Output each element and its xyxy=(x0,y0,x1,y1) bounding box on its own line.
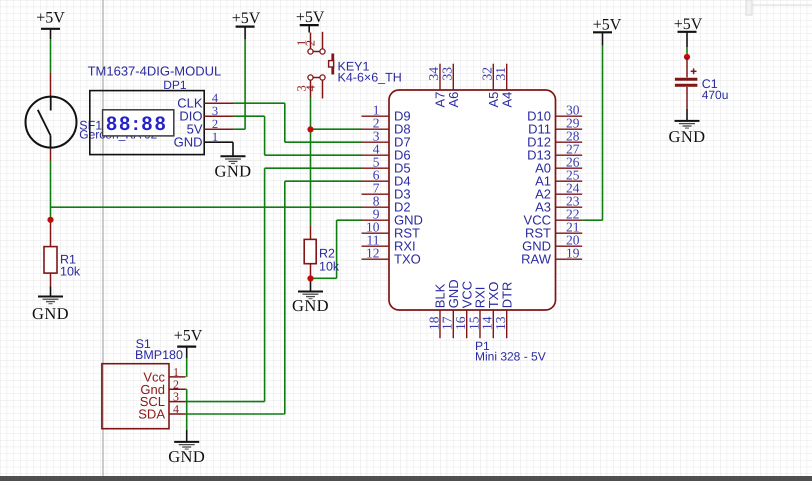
svg-text:10k: 10k xyxy=(60,265,81,279)
svg-text:4: 4 xyxy=(212,91,219,105)
svg-text:88:88: 88:88 xyxy=(106,113,168,135)
svg-text:Mini 328 - 5V: Mini 328 - 5V xyxy=(475,349,546,363)
svg-text:+5V: +5V xyxy=(674,16,703,33)
svg-text:GND: GND xyxy=(32,304,69,323)
svg-text:12: 12 xyxy=(366,245,380,260)
svg-text:+5V: +5V xyxy=(174,328,203,345)
svg-text:GND: GND xyxy=(215,161,252,180)
svg-text:A4: A4 xyxy=(499,92,514,108)
svg-text:RAW: RAW xyxy=(521,252,552,267)
svg-text:SDA: SDA xyxy=(138,407,165,422)
svg-text:A6: A6 xyxy=(446,92,461,108)
svg-text:TM1637-4DIG-MODUL: TM1637-4DIG-MODUL xyxy=(88,64,222,79)
svg-text:TXO: TXO xyxy=(394,252,421,267)
svg-text:GND: GND xyxy=(669,127,706,146)
svg-text:3: 3 xyxy=(212,104,218,118)
svg-text:13: 13 xyxy=(493,316,508,330)
svg-text:470u: 470u xyxy=(702,88,729,102)
svg-text:+5V: +5V xyxy=(296,9,325,26)
svg-text:33: 33 xyxy=(440,67,455,81)
svg-text:R2: R2 xyxy=(319,247,335,261)
svg-text:GND: GND xyxy=(292,296,329,315)
svg-text:GND: GND xyxy=(168,447,205,466)
svg-text:GND: GND xyxy=(174,135,203,150)
svg-text:31: 31 xyxy=(493,67,508,81)
svg-text:2: 2 xyxy=(304,40,318,46)
svg-text:4: 4 xyxy=(173,402,179,416)
svg-text:+5V: +5V xyxy=(232,10,261,27)
svg-text:19: 19 xyxy=(566,245,580,260)
svg-text:DTR: DTR xyxy=(499,282,514,309)
svg-text:10k: 10k xyxy=(319,260,340,274)
svg-text:+5V: +5V xyxy=(36,9,65,26)
svg-text:2: 2 xyxy=(212,117,218,131)
svg-text:4: 4 xyxy=(304,85,318,92)
svg-text:+5V: +5V xyxy=(593,16,622,33)
svg-text:K4-6×6_TH: K4-6×6_TH xyxy=(338,70,402,84)
svg-text:BMP180: BMP180 xyxy=(135,348,183,362)
